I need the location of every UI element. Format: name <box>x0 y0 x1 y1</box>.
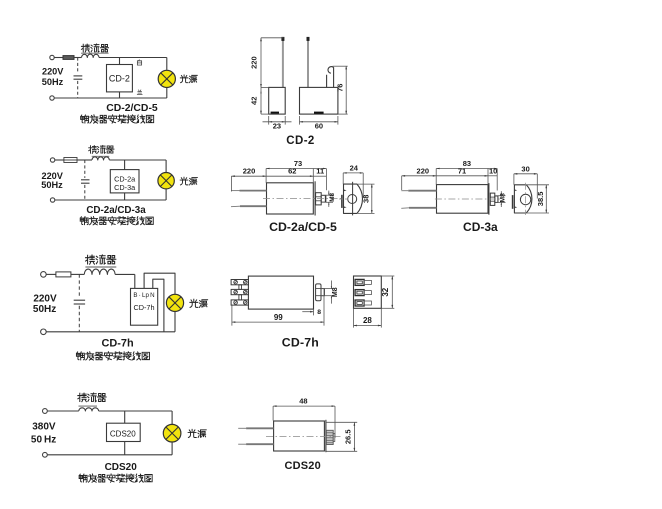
ballast inductor L1 row4 <box>79 408 99 411</box>
label 光源 row1 <box>180 75 197 83</box>
source label 380V 50Hz row4 <box>31 422 56 446</box>
fuse FU row2 <box>64 158 77 163</box>
CD-2 right view hook <box>327 67 334 88</box>
dimension 28 CD-7h end <box>354 308 382 327</box>
CD-2a end view hole <box>348 195 357 204</box>
label 兰 row1 <box>137 90 142 95</box>
fuse FU row1 <box>63 56 74 60</box>
CDS20 lead wires <box>238 428 273 444</box>
CD-7h terminal block 2 <box>231 289 248 294</box>
label ballast 镇流器 row4 <box>78 393 106 406</box>
dimension 220 CD-3a <box>402 166 437 190</box>
CD-2 left view lead wire <box>282 37 284 87</box>
bottom wire row2 <box>55 199 166 201</box>
CD-7h body <box>248 276 313 309</box>
trigger box CD-2a/CD-3a row2 <box>110 170 139 193</box>
svg-text:48: 48 <box>299 397 307 406</box>
wire B pin row3 <box>134 274 136 288</box>
caption CD-2/CD-5 row1 <box>106 103 158 114</box>
capacitor C1 row3 <box>74 274 85 331</box>
svg-text:M8: M8 <box>329 193 336 202</box>
CD-3a side view body <box>437 183 489 215</box>
svg-text:28: 28 <box>363 316 372 325</box>
caption CD-7h drawing <box>282 336 319 350</box>
terminal N row3 <box>41 329 47 335</box>
CD-7h terminal block 1 <box>231 280 248 285</box>
CD-7h end slot 3 <box>355 300 371 306</box>
CD-2a side view body <box>267 181 316 215</box>
wire terminal to fuse row1 <box>54 57 63 59</box>
CD-3a stud nut M8 <box>490 193 498 205</box>
ballast inductor L1 row3 <box>84 269 115 274</box>
svg-text:CD-3a: CD-3a <box>463 220 498 234</box>
CDS20 centerline <box>266 436 341 438</box>
wire terminal to fuse row3 <box>46 273 56 275</box>
wire lamp to bottom row1 <box>166 88 168 99</box>
wire top to box row4 <box>124 411 126 423</box>
wire top to CD-2 box row1 <box>119 58 121 65</box>
wire CD-2 box to bottom row1 <box>119 92 121 98</box>
wire top to lamp row1 <box>166 58 168 71</box>
wire lamp to bottom row2 <box>165 189 167 200</box>
wire fuse to inductor row3 <box>71 273 84 275</box>
svg-text:220: 220 <box>250 56 259 69</box>
svg-text:50Hz: 50Hz <box>41 180 63 190</box>
CD-7h terminal block 3 <box>231 300 248 305</box>
source label 220V 50Hz row1 <box>42 67 65 87</box>
svg-text:CD-7h: CD-7h <box>102 338 134 350</box>
wire top to lamp row4 <box>171 411 173 425</box>
CD-7h terminal link 1-2 <box>239 285 242 290</box>
wire inductor to lamp row4 <box>99 410 173 412</box>
svg-text:CD-2: CD-2 <box>286 135 314 147</box>
capacitor C1 row2 <box>81 160 90 200</box>
svg-text:CDS20: CDS20 <box>284 460 320 472</box>
label ballast 镇流器 row2 <box>89 145 114 156</box>
svg-text:50Hz: 50Hz <box>33 304 56 315</box>
label ballast 镇流器 row1 <box>81 44 109 53</box>
dimension 30 CD-3a end <box>514 164 537 198</box>
svg-text:50 Hz: 50 Hz <box>31 435 56 446</box>
svg-text:B · Lp N: B · Lp N <box>133 292 154 299</box>
dimension M8 CD-3a <box>494 191 506 207</box>
dimension 38 CD-2a end <box>357 184 375 213</box>
caption CDS20 row4 <box>105 462 138 473</box>
wire inductor to lamp node row2 <box>109 159 166 161</box>
wire terminal to fuse row2 <box>55 159 64 161</box>
terminal N row1 <box>50 96 54 100</box>
svg-text:62: 62 <box>288 167 296 176</box>
CD-3a lead wires <box>401 191 436 209</box>
CD-2 right view body <box>300 87 338 114</box>
svg-text:M8: M8 <box>332 287 339 297</box>
wire lamp to bottom row4 <box>171 442 173 455</box>
CD-2a end view outline <box>344 184 363 213</box>
svg-text:CD-2: CD-2 <box>109 73 130 83</box>
bottom wire row3 <box>46 331 175 333</box>
caption CD-2a/CD-3a row2 <box>86 205 146 216</box>
svg-text:60: 60 <box>315 122 323 131</box>
svg-text:M8: M8 <box>500 193 507 202</box>
dimension 26.5 CDS20 <box>326 422 357 451</box>
dimension 71 CD-3a <box>436 166 488 184</box>
svg-text:8: 8 <box>317 309 321 316</box>
svg-text:220: 220 <box>243 167 256 176</box>
terminal N row2 <box>50 198 54 202</box>
svg-text:26.5: 26.5 <box>344 429 353 444</box>
wire box to bottom row2 <box>124 193 126 200</box>
dimension 220 CD-2a <box>231 167 266 192</box>
dimension 220 CD-2 <box>250 38 284 88</box>
caption CD-2 drawing <box>286 135 314 147</box>
terminal L row2 <box>50 158 54 162</box>
label 白 row1 <box>137 60 141 65</box>
svg-text:99: 99 <box>274 313 283 322</box>
wire fuse to inductor row2 <box>77 159 92 161</box>
terminal L row1 <box>50 55 54 59</box>
CD-7h terminal link 2-3 <box>239 295 242 300</box>
dimension 62 CD-2a <box>266 167 313 183</box>
CD-2 right view lead wire <box>307 37 309 87</box>
dimension 42 CD-2 <box>250 87 269 114</box>
CD-3a end view clip bracket <box>513 189 518 209</box>
CD-7h end slot 1 <box>355 279 371 285</box>
label 光源 row3 <box>190 299 208 307</box>
label 光源 row4 <box>188 429 206 437</box>
CD-7h stud nut M8 <box>316 284 325 301</box>
svg-text:76: 76 <box>336 84 345 92</box>
wire top to box row2 <box>124 160 126 170</box>
caption 触发器安装接线图 row3 <box>76 352 149 360</box>
svg-text:380V: 380V <box>32 422 56 433</box>
CD-3a end view centerline <box>524 183 526 215</box>
dimension 60 CD-2 <box>300 116 338 131</box>
dimension 38.5 CD-3a end <box>526 185 549 213</box>
svg-text:CD-3a: CD-3a <box>114 183 136 192</box>
svg-text:50Hz: 50Hz <box>42 77 64 87</box>
caption 触发器安装接线图 row1 <box>81 115 154 123</box>
svg-text:CDS20: CDS20 <box>105 462 138 473</box>
wire fuse to inductor row1 <box>74 57 82 59</box>
CD-3a end view outline <box>514 185 532 213</box>
source label 220V 50Hz row3 <box>33 294 57 315</box>
CD-2a end view clip bracket <box>339 189 348 208</box>
bottom wire row4 <box>47 454 172 456</box>
svg-text:38: 38 <box>361 195 370 203</box>
CDS20 stud thread <box>326 430 335 444</box>
label ballast 镇流器 row3 <box>85 255 116 267</box>
wire lamp to bottom row3 <box>174 312 176 332</box>
source label 220V 50Hz row2 <box>41 171 64 190</box>
trigger box CD-7h row3 <box>131 288 158 325</box>
svg-text:220V: 220V <box>42 67 64 77</box>
caption CD-7h row3 <box>102 338 134 350</box>
CD-3a end view hole <box>520 194 530 204</box>
wire Lp pin to lamp row3 <box>144 273 175 294</box>
caption CD-2a/CD-5 drawing <box>269 220 337 234</box>
top wire row4 <box>47 410 79 412</box>
CD-2a lead wires <box>231 191 267 207</box>
dimension 8 CD-7h stud <box>302 309 321 316</box>
dimension 10 CD-3a <box>488 166 497 175</box>
dimension 99 CD-7h <box>232 289 324 326</box>
svg-text:71: 71 <box>458 166 466 175</box>
caption CDS20 drawing <box>284 460 320 472</box>
svg-text:CDS20: CDS20 <box>110 429 136 438</box>
capacitor C1 row1 <box>74 58 83 99</box>
trigger box CD-2 row1 <box>107 65 133 92</box>
svg-text:30: 30 <box>521 164 529 173</box>
svg-text:38.5: 38.5 <box>536 192 545 207</box>
svg-text:220: 220 <box>417 166 430 175</box>
lamp EL row1 <box>158 70 175 87</box>
terminal N row4 <box>43 452 48 457</box>
svg-text:24: 24 <box>350 163 359 172</box>
lamp EL row3 <box>166 294 183 311</box>
caption 触发器安装接线图 row4 <box>79 474 152 482</box>
CD-7h end view outline <box>354 276 382 308</box>
wire box to bottom row4 <box>124 442 126 455</box>
caption CD-3a drawing <box>463 220 498 234</box>
ballast inductor L1 row2 <box>92 157 109 160</box>
caption 触发器安装接线图 row2 <box>80 217 153 225</box>
dimension 32 CD-7h end <box>381 276 394 308</box>
wire inductor to lamp node row1 <box>99 57 167 59</box>
lamp EL row4 <box>163 424 181 442</box>
svg-text:CD-2a/CD-3a: CD-2a/CD-3a <box>86 205 146 216</box>
svg-text:10: 10 <box>489 166 497 175</box>
wire top to lamp row2 <box>165 160 167 173</box>
dimension 73 CD-2a <box>266 159 326 190</box>
lamp EL row2 <box>158 173 174 189</box>
wire N pin to bottom row3 <box>153 279 164 332</box>
svg-text:CD-2a/CD-5: CD-2a/CD-5 <box>269 220 337 234</box>
dimension M8 CD-2a <box>321 191 336 207</box>
wire inductor to B pin row3 <box>115 273 135 275</box>
svg-text:32: 32 <box>381 287 390 296</box>
CD-2 left view body <box>269 87 286 114</box>
svg-text:CD-2/CD-5: CD-2/CD-5 <box>106 103 158 114</box>
label 光源 row2 <box>180 177 197 185</box>
CD-2a stud nut M8 <box>316 193 326 205</box>
svg-text:23: 23 <box>273 122 281 131</box>
svg-text:42: 42 <box>250 97 259 105</box>
CD-2a end view centerline <box>352 182 354 216</box>
svg-text:CD-7h: CD-7h <box>133 303 154 312</box>
terminal L row3 <box>41 272 47 278</box>
CD-2a centerline <box>263 197 341 199</box>
fuse FU row3 <box>56 272 71 277</box>
ballast inductor L1 row1 <box>82 54 100 57</box>
CD-3a centerline <box>435 198 504 200</box>
dimension M8 CD-7h <box>321 281 339 304</box>
svg-text:CD-7h: CD-7h <box>282 336 319 350</box>
CDS20 body <box>274 420 326 452</box>
svg-text:11: 11 <box>316 167 324 176</box>
bottom wire row1 <box>54 97 167 99</box>
dimension 48 CDS20 <box>273 397 335 438</box>
dimension 23 CD-2 <box>263 116 292 131</box>
terminal L row4 <box>43 409 48 414</box>
dimension 76 CD-2 <box>333 66 348 114</box>
dimension 11 CD-2a <box>313 167 326 177</box>
CD-7h end slot 2 <box>355 290 371 296</box>
dimension 83 CD-3a <box>436 159 497 190</box>
trigger box CDS20 row4 <box>107 423 141 441</box>
dimension 24 CD-2a end <box>343 163 363 198</box>
